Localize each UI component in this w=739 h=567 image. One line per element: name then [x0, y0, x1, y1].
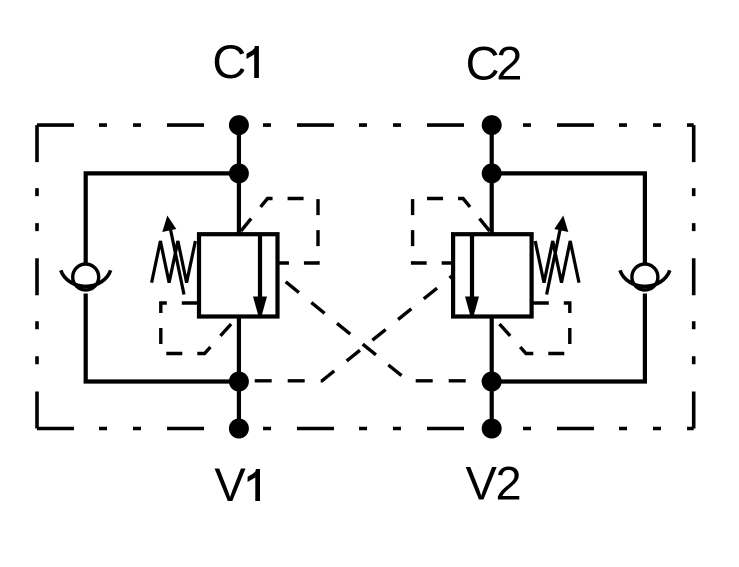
- svg-text:2: 2: [496, 457, 522, 510]
- valve U2 inner line: [470, 234, 474, 316]
- svg-text:V: V: [214, 458, 246, 511]
- wire V1 main line lower: [237, 317, 241, 429]
- node V1 on boundary: [229, 419, 249, 439]
- svg-text:V: V: [466, 457, 498, 510]
- pilot line cross from U1 to V2 node: [279, 276, 493, 381]
- node junction C2 branch: [482, 163, 502, 183]
- enclosure boundary left: [35, 125, 39, 428]
- wire branch C2 to check valve CV2: [492, 173, 645, 262]
- pilot line cross from V1 node to U2: [239, 276, 452, 381]
- node junction V1 branch: [229, 372, 249, 392]
- valve body U1 (left counterbalance valve): [199, 234, 278, 316]
- check valve CV1 seat: [61, 270, 111, 286]
- spring S2 (right valve spring): [535, 241, 579, 283]
- node V2 on boundary: [482, 419, 502, 439]
- wire check valve CV2 to V2 node: [492, 294, 645, 382]
- valve U1 flow arrow: [253, 297, 267, 314]
- spring S1 (left valve spring): [152, 241, 196, 283]
- enclosure boundary top: [37, 123, 694, 127]
- pilot line U2 lower loop: [495, 303, 570, 354]
- check valve CV2 seat: [620, 270, 670, 286]
- wire C2 main line upper: [490, 125, 494, 234]
- valve body U2 (right counterbalance valve): [453, 234, 531, 316]
- node C2 on boundary: [482, 115, 502, 135]
- wire V2 main line lower: [490, 317, 494, 429]
- spring S2 adjustment arrow: [547, 227, 561, 295]
- wire branch C1 to check valve CV1: [86, 173, 239, 262]
- check valve CV1 ball: [73, 264, 99, 290]
- svg-text:C: C: [466, 37, 500, 90]
- pilot line U1 upper loop: [241, 199, 318, 264]
- pilot line U1 lower loop: [161, 303, 236, 354]
- wire check valve CV1 to V1 node: [86, 294, 239, 382]
- enclosure boundary bottom: [37, 427, 694, 431]
- enclosure boundary right: [692, 125, 696, 428]
- spring S1 adjustment arrow: [170, 227, 184, 295]
- check valve CV2 ball: [632, 264, 658, 290]
- node junction C1 branch: [229, 163, 249, 183]
- svg-text:2: 2: [496, 37, 522, 90]
- wire C1 main line upper: [237, 125, 241, 234]
- node C1 on boundary: [229, 115, 249, 135]
- node junction V2 branch: [482, 372, 502, 392]
- svg-text:C: C: [212, 35, 246, 88]
- pilot line U2 upper loop: [413, 199, 490, 264]
- valve U1 inner line: [258, 234, 262, 316]
- valve U2 flow arrow: [465, 297, 479, 314]
